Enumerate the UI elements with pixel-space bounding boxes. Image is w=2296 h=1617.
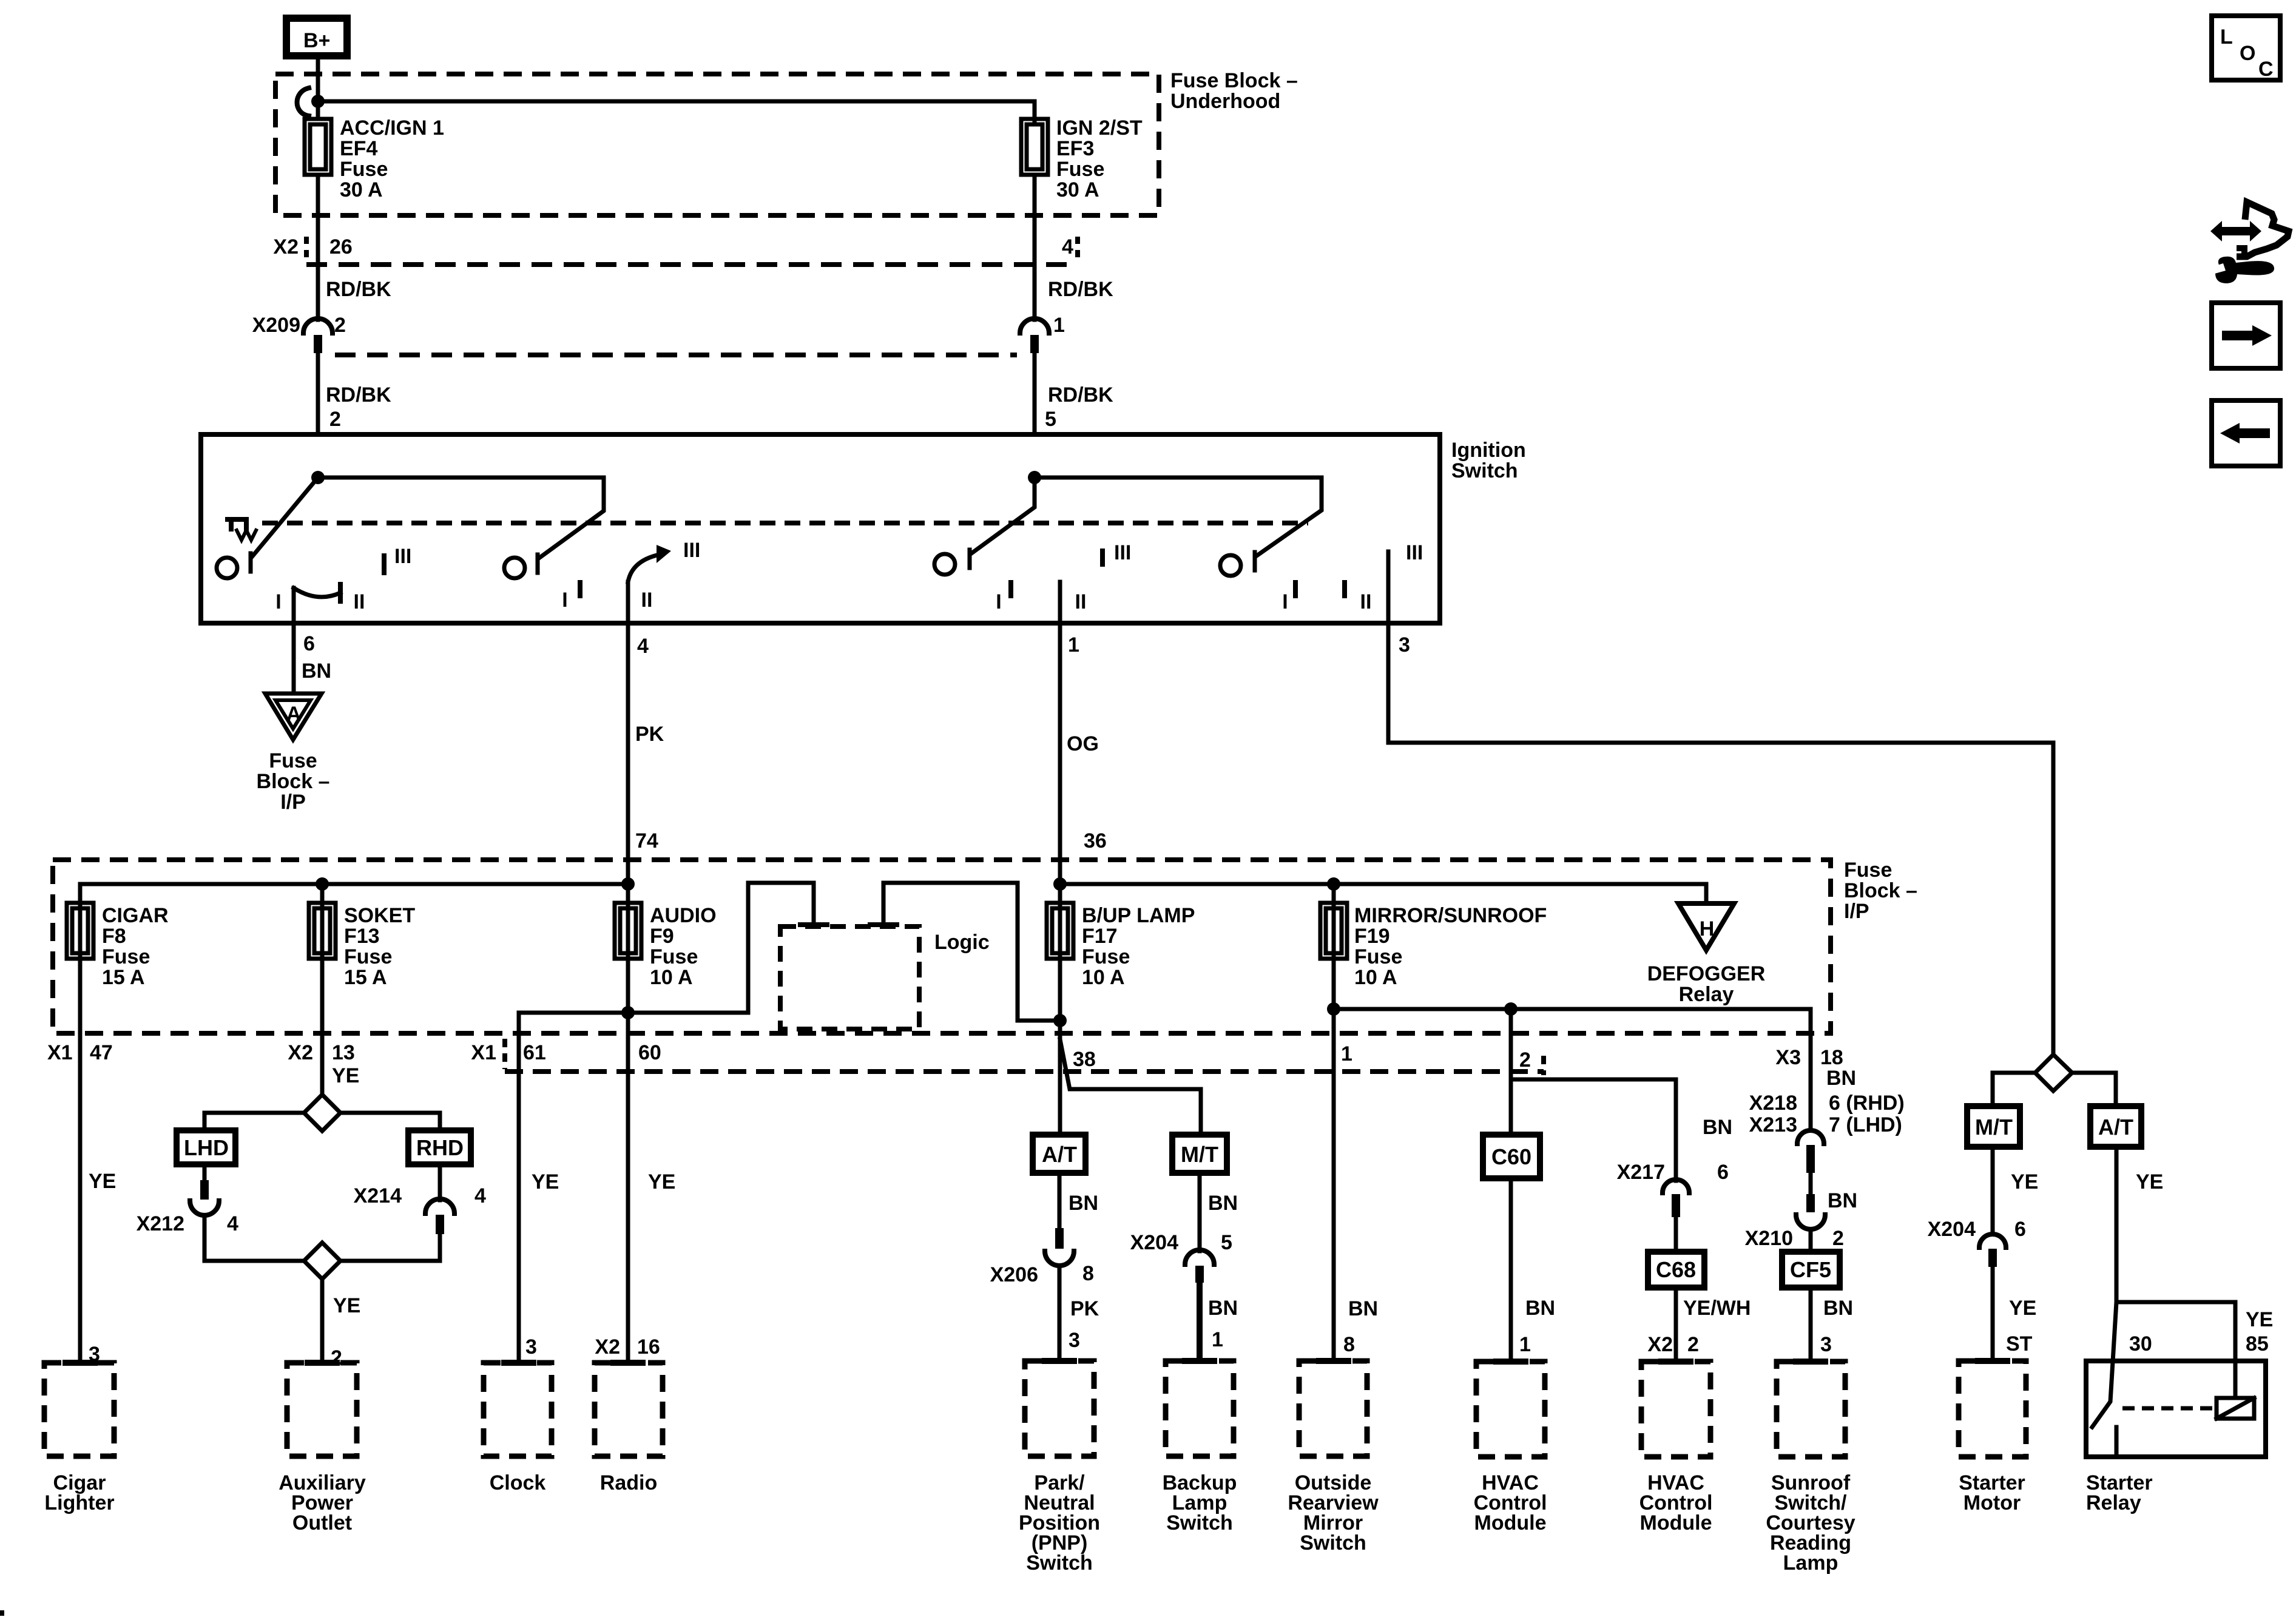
svg-text:Switch: Switch — [1166, 1511, 1233, 1534]
M/T box starter — [1967, 1106, 2020, 1147]
svg-text:F17: F17 — [1082, 925, 1118, 948]
C60 box — [1483, 1135, 1540, 1178]
svg-text:47: 47 — [90, 1041, 113, 1064]
node junction at B+ feed — [311, 95, 325, 108]
svg-text:F13: F13 — [344, 925, 380, 948]
fuse F17 B/UP LAMP 10 A — [1058, 884, 1062, 1135]
svg-text:5: 5 — [1221, 1231, 1232, 1254]
svg-text:Fuse: Fuse — [1056, 158, 1104, 181]
Starter Motor box — [1978, 1358, 2007, 1364]
position marks group 1 — [382, 556, 387, 573]
svg-text:III: III — [394, 545, 411, 568]
svg-text:BN: BN — [1208, 1192, 1238, 1215]
svg-text:F19: F19 — [1354, 925, 1390, 948]
svg-text:M/T: M/T — [1181, 1142, 1218, 1167]
node at AUDIO fuse — [621, 877, 635, 891]
svg-text:L: L — [2220, 25, 2233, 49]
svg-text:RHD: RHD — [416, 1135, 464, 1160]
mirror sub bus — [1334, 1009, 1811, 1130]
svg-text:X209: X209 — [252, 314, 300, 337]
svg-text:8: 8 — [1082, 1262, 1094, 1285]
switch arm 4 wire — [1035, 478, 1322, 556]
svg-text:ACC/IGN 1: ACC/IGN 1 — [340, 116, 444, 140]
svg-text:30 A: 30 A — [1056, 178, 1099, 201]
svg-text:BN: BN — [1703, 1116, 1732, 1139]
svg-text:MIRROR/SUNROOF: MIRROR/SUNROOF — [1354, 904, 1547, 927]
wiper arc group 2 with arrow — [628, 554, 663, 582]
svg-text:B+: B+ — [303, 29, 330, 52]
svg-text:Logic: Logic — [934, 931, 990, 954]
wire branch to M/T backup — [1060, 1039, 1201, 1135]
svg-text:X2: X2 — [595, 1335, 620, 1359]
relay switch blade — [2092, 1302, 2116, 1427]
node C60 branch — [1504, 1002, 1518, 1016]
svg-text:10 A: 10 A — [1082, 966, 1125, 989]
wire pin 3 inside box — [1386, 552, 1391, 623]
svg-text:F8: F8 — [102, 925, 126, 948]
svg-text:III: III — [1114, 541, 1131, 564]
dashed row X209 — [335, 353, 1017, 357]
svg-text:Module: Module — [1640, 1511, 1712, 1534]
power flow tool icon double arrow — [2210, 221, 2261, 241]
wire X210 to CF5 — [1809, 1229, 1813, 1252]
svg-text:Switch: Switch — [1300, 1531, 1366, 1555]
svg-text:RD/BK: RD/BK — [326, 278, 391, 301]
svg-text:I/P: I/P — [1844, 900, 1869, 923]
svg-text:15 A: 15 A — [344, 966, 387, 989]
connector X206 female cup — [1045, 1251, 1074, 1266]
logic input T bar right — [870, 922, 897, 927]
DEFOGGER relay triangle H — [1678, 903, 1734, 950]
wire X204 to backup switch — [1197, 1283, 1203, 1361]
A/T box starter — [2090, 1106, 2141, 1147]
svg-text:C: C — [2258, 58, 2274, 81]
svg-text:II: II — [641, 589, 653, 612]
svg-text:X212: X212 — [137, 1212, 184, 1235]
svg-text:38: 38 — [1073, 1048, 1096, 1071]
svg-text:RD/BK: RD/BK — [1048, 278, 1113, 301]
svg-text:3: 3 — [1069, 1329, 1080, 1352]
switch contact circle 4 — [1220, 555, 1241, 576]
svg-text:YE: YE — [2246, 1308, 2273, 1331]
svg-text:X2: X2 — [1647, 1333, 1673, 1356]
wire M/T to X204 — [1198, 1173, 1202, 1251]
svg-text:I: I — [275, 590, 281, 613]
svg-text:OG: OG — [1067, 732, 1099, 755]
switch arm 3 — [971, 478, 1035, 553]
svg-text:Fuse: Fuse — [1844, 859, 1892, 882]
LOC legend box — [2212, 16, 2280, 80]
Cigar Lighter box — [66, 1360, 95, 1366]
relay actuation dashed line — [2122, 1406, 2215, 1411]
HVAC Control Module box 1 — [1496, 1359, 1525, 1365]
Clock box — [504, 1360, 533, 1366]
svg-text:4: 4 — [637, 635, 649, 658]
wire to M/T starter — [1993, 1073, 2035, 1106]
wire A/T PNP column below junction — [1058, 1021, 1062, 1135]
svg-text:YE: YE — [333, 1294, 360, 1317]
svg-text:AUDIO: AUDIO — [650, 904, 717, 927]
wire X214 down to splice — [340, 1234, 440, 1261]
wire RD/BK right to ignition switch — [1033, 353, 1037, 434]
wire between connectors — [1809, 1173, 1813, 1195]
svg-text:F9: F9 — [650, 925, 674, 948]
svg-text:YE: YE — [2136, 1170, 2163, 1193]
svg-text:3: 3 — [1820, 1333, 1832, 1356]
lower fine dashed connector row — [505, 1069, 1544, 1074]
wire X212 down to splice — [204, 1215, 304, 1261]
power flow tool icon wrench — [2215, 257, 2274, 283]
connector X212 female cup — [190, 1201, 219, 1215]
wire to starter motor — [1991, 1267, 1995, 1361]
svg-text:Switch: Switch — [1026, 1551, 1093, 1575]
svg-text:5: 5 — [1045, 408, 1056, 431]
svg-text:Fuse: Fuse — [650, 945, 698, 968]
svg-text:6: 6 — [2014, 1218, 2026, 1241]
svg-text:1: 1 — [1053, 314, 1065, 337]
svg-text:I: I — [562, 589, 567, 612]
connector X206 male terminal — [1055, 1228, 1064, 1249]
HVAC Control Module box 2 — [1661, 1359, 1690, 1365]
svg-text:Radio: Radio — [600, 1471, 657, 1494]
svg-text:10 A: 10 A — [1354, 966, 1397, 989]
wire B+ down to fuse block — [316, 59, 320, 119]
connector X218/X213 male terminal — [1806, 1145, 1815, 1173]
svg-text:1: 1 — [1519, 1333, 1531, 1356]
wire to RHD — [340, 1113, 440, 1130]
RHD box — [408, 1130, 471, 1164]
svg-text:YE: YE — [648, 1170, 675, 1193]
svg-text:O: O — [2240, 42, 2255, 65]
svg-text:18: 18 — [1820, 1046, 1843, 1069]
svg-text:PK: PK — [1070, 1297, 1099, 1320]
svg-text:Module: Module — [1474, 1511, 1547, 1534]
wire logic branch right from B/UP — [883, 883, 1060, 1021]
svg-text:X214: X214 — [354, 1184, 402, 1207]
back arrow box — [2212, 400, 2280, 466]
wire audio branch to clock and logic — [519, 883, 814, 1013]
svg-text:A/T: A/T — [2098, 1115, 2133, 1139]
svg-text:2: 2 — [329, 408, 341, 431]
wire clock column — [517, 1013, 521, 1361]
svg-text:Lighter: Lighter — [44, 1491, 114, 1514]
C68 box — [1648, 1252, 1704, 1288]
connector X204 female cap — [1185, 1250, 1214, 1264]
wire splice to auxiliary outlet — [320, 1279, 325, 1361]
svg-text:6: 6 — [303, 632, 315, 655]
svg-text:Lamp: Lamp — [1783, 1551, 1838, 1575]
svg-text:Switch: Switch — [1451, 459, 1518, 482]
connector X209 female cap left — [303, 319, 333, 333]
svg-text:1: 1 — [1212, 1328, 1223, 1351]
switch contact circle 2 — [504, 558, 525, 578]
svg-text:4: 4 — [1062, 235, 1073, 258]
svg-text:13: 13 — [332, 1041, 355, 1064]
svg-text:10 A: 10 A — [650, 966, 693, 989]
wire LHD down — [203, 1164, 207, 1182]
svg-text:36: 36 — [1084, 829, 1107, 852]
svg-text:PK: PK — [635, 723, 664, 746]
fuse EF4 ACC/IGN 1 30 A — [305, 119, 331, 175]
connector X214 male terminal — [436, 1215, 444, 1234]
svg-text:4: 4 — [474, 1184, 486, 1207]
svg-text:X2: X2 — [288, 1041, 313, 1064]
M/T box — [1172, 1135, 1227, 1173]
svg-text:M/T: M/T — [1975, 1115, 2013, 1139]
svg-text:I: I — [1282, 590, 1288, 613]
svg-text:Ignition: Ignition — [1451, 439, 1526, 462]
svg-text:BN: BN — [1208, 1297, 1238, 1320]
svg-text:60: 60 — [638, 1041, 661, 1064]
svg-text:Motor: Motor — [1963, 1491, 2021, 1514]
svg-text:C68: C68 — [1656, 1257, 1696, 1282]
svg-text:X1: X1 — [47, 1041, 73, 1064]
svg-text:YE: YE — [2011, 1170, 2038, 1193]
svg-text:YE: YE — [332, 1064, 359, 1087]
svg-text:2: 2 — [1687, 1333, 1699, 1356]
fuse F13 SOKET 15 A — [309, 903, 336, 959]
wiper arc group 1 — [294, 588, 340, 597]
wire C60 to HVAC module — [1509, 1178, 1513, 1362]
connector X218/X213 female cap — [1797, 1130, 1824, 1144]
connector X204 starter male terminal — [1988, 1249, 1997, 1267]
svg-text:YE: YE — [2009, 1297, 2036, 1320]
svg-text:16: 16 — [637, 1335, 660, 1359]
wire X217 to C68 — [1674, 1217, 1678, 1252]
svg-text:30 A: 30 A — [340, 178, 383, 201]
page corner mark — [0, 1610, 4, 1616]
svg-text:X206: X206 — [990, 1263, 1038, 1286]
wire C68 to HVAC module 2 — [1674, 1288, 1678, 1362]
wire A/T down to relay — [2115, 1147, 2119, 1302]
svg-text:B/UP LAMP: B/UP LAMP — [1082, 904, 1195, 927]
svg-text:EF3: EF3 — [1056, 137, 1094, 160]
svg-text:Fuse: Fuse — [1082, 945, 1130, 968]
svg-text:1: 1 — [1341, 1042, 1352, 1065]
svg-text:2: 2 — [334, 314, 346, 337]
Logic dashed box — [780, 927, 919, 1029]
svg-text:Fuse: Fuse — [102, 945, 150, 968]
wire C60 column — [1509, 1009, 1513, 1135]
Auxiliary Power Outlet box — [308, 1360, 337, 1366]
svg-text:BN: BN — [1826, 1067, 1856, 1090]
svg-text:Block –: Block – — [1844, 879, 1917, 902]
svg-text:85: 85 — [2246, 1332, 2269, 1355]
svg-text:3: 3 — [1399, 633, 1410, 657]
svg-text:X3: X3 — [1775, 1046, 1801, 1069]
Ignition Switch box — [201, 434, 1440, 623]
Park/Neutral Position Switch box — [1045, 1358, 1074, 1364]
svg-text:4: 4 — [227, 1212, 238, 1235]
svg-text:7 (LHD): 7 (LHD) — [1829, 1113, 1902, 1136]
svg-text:YE: YE — [89, 1170, 116, 1193]
svg-text:61: 61 — [523, 1041, 546, 1064]
svg-text:Fuse: Fuse — [344, 945, 392, 968]
connector X209 male terminal right — [1030, 335, 1039, 353]
svg-text:Outlet: Outlet — [292, 1511, 352, 1534]
svg-text:CIGAR: CIGAR — [102, 904, 169, 927]
key symbol — [228, 519, 246, 530]
svg-text:2: 2 — [1519, 1048, 1531, 1072]
pin 3 wire to starter branch — [1388, 623, 2053, 1055]
node junction AUDIO to clock/logic — [621, 1006, 635, 1019]
svg-text:26: 26 — [329, 235, 353, 258]
node mirror bus left — [1327, 1002, 1340, 1016]
wire RHD down — [438, 1164, 442, 1200]
CF5 box — [1782, 1252, 1840, 1288]
switch contact circle 3 — [934, 554, 955, 575]
svg-text:Block –: Block – — [257, 770, 330, 793]
svg-text:EF4: EF4 — [340, 137, 377, 160]
svg-text:DEFOGGER: DEFOGGER — [1647, 962, 1766, 985]
switch arm 1 — [252, 478, 318, 557]
svg-text:Fuse: Fuse — [340, 158, 388, 181]
wire X206 to PNP switch — [1058, 1266, 1062, 1361]
connector X204 male terminal — [1195, 1266, 1204, 1283]
fuse EF3 IGN 2/ST 30 A — [1021, 119, 1048, 175]
Outside Rearview Mirror Switch box — [1319, 1358, 1348, 1364]
node at B/UP fuse — [1053, 877, 1067, 891]
Fuse Block - Underhood dashed box — [275, 74, 1159, 215]
wire CIGAR column — [78, 903, 83, 1361]
wire SOKET column — [320, 884, 325, 1095]
svg-text:BN: BN — [1823, 1297, 1853, 1320]
svg-text:II: II — [1075, 590, 1087, 613]
fuse F9 AUDIO 10 A — [626, 884, 630, 1361]
wire branch to relay pin 85 — [2116, 1302, 2235, 1398]
svg-text:6 (RHD): 6 (RHD) — [1829, 1092, 1905, 1115]
svg-text:BN: BN — [1828, 1189, 1857, 1212]
dashed gang line inside ignition switch — [262, 521, 1308, 525]
diamond splice top — [304, 1095, 340, 1131]
svg-text:Relay: Relay — [2086, 1491, 2141, 1514]
svg-text:C60: C60 — [1491, 1144, 1531, 1169]
switch contact circle 1 — [217, 558, 237, 578]
svg-text:III: III — [683, 539, 700, 562]
fuse F8 CIGAR 15 A — [67, 903, 93, 959]
fuse F19 MIRROR/SUNROOF 10 A — [1332, 884, 1336, 1361]
svg-text:LHD: LHD — [184, 1135, 229, 1160]
svg-text:X204: X204 — [1928, 1218, 1976, 1241]
node junction pin 5 — [1028, 471, 1041, 484]
wire CF5 to sunroof switch — [1809, 1288, 1813, 1362]
connector X210 female cup — [1796, 1215, 1825, 1229]
connector X217 male terminal — [1672, 1194, 1680, 1217]
ground triangle A Fuse Block I/P — [265, 694, 322, 740]
wire EF3 down — [1033, 175, 1037, 320]
A/T box — [1033, 1135, 1086, 1173]
svg-text:RD/BK: RD/BK — [326, 383, 391, 407]
pin 6 wire and label — [292, 623, 296, 694]
svg-text:3: 3 — [525, 1335, 537, 1359]
svg-text:2: 2 — [331, 1346, 342, 1369]
svg-text:8: 8 — [1343, 1333, 1355, 1356]
LHD box — [177, 1130, 235, 1164]
svg-text:CF5: CF5 — [1790, 1257, 1831, 1282]
svg-text:H: H — [1700, 917, 1715, 940]
wire RD/BK left to ignition switch — [316, 353, 320, 434]
wire M/T down — [1991, 1147, 1995, 1234]
Radio box — [613, 1360, 643, 1366]
wire pin 1 inside box — [1058, 582, 1062, 623]
svg-text:I/P: I/P — [280, 791, 306, 814]
svg-text:IGN 2/ST: IGN 2/ST — [1056, 116, 1143, 140]
svg-text:Fuse: Fuse — [269, 749, 317, 772]
connector X209 female cap right — [1020, 319, 1049, 333]
node junction pin 2 — [311, 471, 325, 484]
svg-text:X204: X204 — [1130, 1231, 1178, 1254]
Backup Lamp Switch box — [1185, 1358, 1214, 1364]
svg-text:A/T: A/T — [1042, 1142, 1077, 1167]
svg-text:Clock: Clock — [490, 1471, 546, 1494]
svg-text:Fuse Block –: Fuse Block – — [1170, 69, 1298, 92]
svg-text:1: 1 — [1068, 633, 1079, 657]
svg-text:6: 6 — [1717, 1161, 1729, 1184]
svg-text:Relay: Relay — [1679, 983, 1734, 1006]
svg-text:X218: X218 — [1749, 1092, 1797, 1115]
pin 4 wire PK — [626, 623, 630, 884]
svg-text:A: A — [286, 703, 302, 726]
wire pin 4 inside box — [626, 582, 630, 623]
wire to LHD — [204, 1113, 304, 1130]
switch arm 2 wire — [318, 478, 604, 558]
svg-text:X213: X213 — [1749, 1113, 1797, 1136]
svg-text:II: II — [354, 590, 365, 613]
connector X210 male terminal — [1806, 1194, 1815, 1212]
svg-text:YE/WH: YE/WH — [1683, 1297, 1751, 1320]
connector X214 female cap — [425, 1199, 454, 1214]
svg-text:SOKET: SOKET — [344, 904, 415, 927]
connector X209 male terminal left — [314, 335, 322, 353]
svg-text:30: 30 — [2129, 1332, 2152, 1355]
battery feed B+ box — [286, 18, 347, 56]
fusible link curl — [297, 88, 309, 116]
svg-text:X2: X2 — [273, 235, 299, 258]
wire EF4 down — [316, 175, 320, 320]
svg-text:ST: ST — [2006, 1332, 2033, 1355]
power flow tool icon outline — [2237, 202, 2289, 257]
wire to A/T starter — [2072, 1073, 2116, 1106]
wire top bus to IGN 2/ST fuse — [318, 101, 1035, 121]
svg-text:RD/BK: RD/BK — [1048, 383, 1113, 407]
wire branch to X217 — [1511, 1079, 1676, 1181]
node at MIRROR/SUNROOF fuse — [1327, 877, 1340, 891]
logic input T bar left — [800, 922, 827, 927]
svg-text:II: II — [1360, 590, 1372, 613]
pin 1 wire OG — [1058, 623, 1062, 884]
svg-text:YE: YE — [532, 1170, 559, 1193]
position marks group 2 — [578, 582, 582, 596]
svg-text:74: 74 — [635, 829, 658, 852]
relay pin stub — [2115, 1427, 2119, 1457]
svg-text:I: I — [996, 590, 1001, 613]
node at SOKET fuse — [316, 877, 329, 891]
svg-text:X217: X217 — [1617, 1161, 1665, 1184]
forward arrow box — [2212, 303, 2280, 368]
svg-text:Underhood: Underhood — [1170, 90, 1280, 113]
Starter Relay box — [2086, 1361, 2266, 1457]
svg-text:X1: X1 — [471, 1041, 496, 1064]
wire A/T to X206 — [1058, 1173, 1062, 1229]
svg-text:III: III — [1406, 541, 1423, 564]
svg-text:2: 2 — [1832, 1227, 1844, 1250]
svg-text:X210: X210 — [1745, 1227, 1793, 1250]
svg-text:BN: BN — [1525, 1297, 1555, 1320]
relay coil box — [2217, 1398, 2254, 1419]
diamond splice bottom — [304, 1243, 340, 1279]
right feed bus OG — [1060, 884, 1706, 903]
connector X217 female cap — [1663, 1180, 1689, 1193]
